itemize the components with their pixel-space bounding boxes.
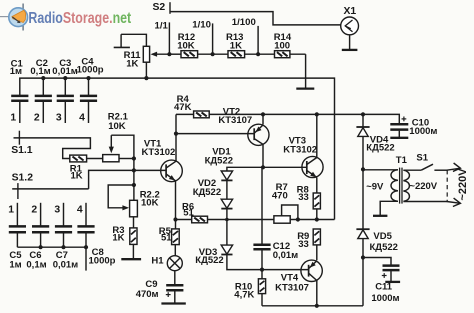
wire secondary bottom to output [403,201,447,203]
svg-text:KT3102: KT3102 [142,147,176,158]
svg-text:1000р: 1000р [89,255,116,266]
lamp H1 [167,256,182,271]
switch S2 label [153,2,166,13]
resistor R5 [172,229,180,245]
svg-text:1: 1 [10,113,16,124]
junction dot VT4 base node [260,268,264,272]
junction dot VD1 node [261,165,265,169]
capacitor C1 [11,96,28,123]
open contact at R11 top [114,34,130,47]
svg-text:KT3102: KT3102 [283,144,317,155]
winding value ~9V [366,181,384,192]
svg-text:1/100: 1/100 [232,17,256,28]
junction dots on bus [41,76,148,80]
wire S2 bus to X1 [170,12,341,25]
wire VT3 collector [316,114,318,157]
junction dot VT2 base branch [174,132,178,136]
wire VD2 to VD3 [226,209,228,246]
capacitor C2 label [30,58,50,77]
resistor R7 label [272,182,288,202]
diode VD3 [221,245,232,254]
transistor VT2 label [218,107,252,127]
potentiometer R11 [143,46,149,62]
capacitor C10 [390,124,408,137]
wire R9 bottom [316,245,318,261]
wire S1.1 common to R1 [14,138,91,159]
resistor R4 [194,111,210,118]
svg-text:2: 2 [31,204,37,215]
wire R3 to ground [132,244,134,258]
junction dot R6 node [225,218,229,222]
wire 1/10 tap [212,23,214,54]
svg-text:RadioStorage.net: RadioStorage.net [28,10,131,27]
switch S1.1 lever [18,131,20,145]
svg-text:4,7K: 4,7K [234,289,254,300]
wire to VD5 [362,169,364,229]
svg-text:S2: S2 [153,2,166,13]
svg-text:КД522: КД522 [195,255,223,266]
svg-text:10K: 10K [141,198,159,209]
switch S1.2 lever [17,183,19,199]
wire R8 bottom [316,209,318,220]
svg-text:C11: C11 [375,282,393,293]
capacitor C12 label [273,241,299,261]
resistor R11 label [124,50,142,70]
capacitor C6 [32,203,49,247]
transistor VT4 label [275,273,309,294]
resistor R1 [70,155,87,162]
diode VD1 label [205,147,233,167]
node 1/100 label [232,17,256,28]
wire rail to VD4 [362,114,364,127]
junction dots R7 row [296,217,319,221]
junction dots on divider line [167,52,260,56]
switch S1.2 label [12,173,34,184]
junction dots positive rail [261,112,365,116]
wire VD1 node [227,167,307,171]
capacitor C2 [35,78,52,123]
svg-text:0,1м: 0,1м [26,259,46,270]
diode VD5 [356,229,369,238]
svg-text:0,1м: 0,1м [30,66,50,77]
ground at X1 [342,49,358,51]
svg-text:4: 4 [77,204,83,215]
transistor VT4 [301,260,322,281]
svg-text:47K: 47K [174,102,192,113]
capacitor C6 label [26,250,46,271]
S1.1 contact pin 1 [10,113,16,124]
wire VD1 node to C12 [261,167,263,244]
resistor R6 [192,216,208,223]
resistor R6 label [182,201,194,218]
svg-text:S1.2: S1.2 [12,173,34,184]
svg-text:0,01м: 0,01м [273,250,299,261]
wire positive rail [209,114,399,123]
wire C5-C8 bus [17,246,86,248]
capacitor C11 [383,266,400,282]
transistor VT2 [248,124,269,145]
capacitor C9 label [136,279,159,300]
resistor R10 label [234,281,254,300]
svg-text:S1: S1 [416,152,428,163]
svg-text:1000м: 1000м [409,126,437,137]
capacitor C11 polarity [382,273,387,278]
switch S1 label [416,152,428,163]
S1.1 contact pin 2 [34,113,40,124]
svg-text:H1: H1 [151,255,164,266]
wire X1 to ground [349,35,351,50]
svg-text:S1.1: S1.1 [11,145,33,156]
node 1/10 label [192,19,211,30]
svg-text:КД522: КД522 [205,156,233,167]
svg-text:KT3107: KT3107 [218,115,252,126]
transformer T1 label [396,155,408,166]
resistor R8 [313,193,320,209]
capacitor C9 polarity [166,292,171,297]
wire node column [133,158,135,200]
wire to R10 [261,270,263,279]
capacitor C4 [80,78,97,123]
wire emitter to R6 [176,219,192,221]
resistor R7 tap [282,205,298,220]
svg-text:470: 470 [272,190,288,201]
svg-text:~220V: ~220V [457,168,469,201]
R2.1 wiper arrow [109,135,114,153]
junction dot T1 primary [361,167,365,171]
capacitor C5 label [9,250,22,271]
wire frequency bus and feedback [20,78,335,219]
potentiometer R2.1 label [108,112,129,132]
S1.2 contact pin 2 [31,204,37,215]
S1.1 contact pin 4 [79,113,85,124]
resistor R4 label [174,94,192,113]
wire R2.2 wiper loop [108,185,134,210]
svg-text:470м: 470м [136,289,159,300]
wire negative rail [262,305,363,307]
junction dot VT1 emitter node [173,217,177,221]
svg-text:1K: 1K [71,171,83,182]
RadioStorage.net logo icon [0,4,28,31]
svg-text:1м: 1м [10,66,22,77]
capacitor C5 [9,203,26,247]
wire R11 top [121,34,146,46]
wire S1 to output [434,169,447,171]
svg-text:1K: 1K [112,233,124,244]
node 1/1 label [155,20,169,31]
wire 1/100 tap [257,26,259,54]
resistor R14 label [274,32,292,51]
connector X1 [341,17,359,35]
connector X1 label [344,6,357,17]
resistor R9 [313,229,320,245]
svg-text:X1: X1 [344,6,357,17]
diode VD2 [221,199,232,208]
resistor R12 [181,51,198,58]
resistor R12 label [177,32,195,51]
wire to R5 [175,220,177,229]
winding value ~220V [409,181,437,192]
logo text RadioStorage.net [28,10,131,27]
capacitor C4 label [77,57,104,76]
svg-text:1000м: 1000м [371,293,399,304]
ground at T1 [373,215,387,217]
wire R5 to H1 [174,245,176,256]
wire VD4 to T1 [362,137,364,170]
wire S1.2 common [12,188,88,190]
capacitor C3 label [52,58,78,77]
wire T1 primary bottom [380,201,398,215]
wire VD1 to VD2 [226,180,228,199]
svg-text:КД522: КД522 [193,187,221,198]
wire R1 to R2.1 [87,158,103,160]
transistor VT1 label [142,138,176,158]
diode VD4 label [366,135,394,154]
diode VD2 label [193,178,221,198]
output arrow top [447,163,461,171]
capacitor C3 [57,78,74,123]
diode VD4 [356,127,369,136]
svg-text:3: 3 [54,204,60,215]
wire 1/1 tap [168,22,170,54]
S1.2 contact pin 3 [54,204,60,215]
ground at C11 [385,281,400,283]
ground at C10 [390,137,408,139]
svg-text:1K: 1K [230,41,242,52]
svg-text:51: 51 [161,232,172,243]
wire VT2 base [176,133,254,135]
S1.2 contact pin 4 [77,204,83,215]
svg-text:10K: 10K [177,41,195,52]
S1.2 contact pin 1 [8,204,14,215]
resistor R10 [258,279,265,294]
svg-text:0,01м: 0,01м [52,66,78,77]
svg-text:0,01м: 0,01м [53,259,79,270]
capacitor C10 label [409,118,437,137]
resistor R3 label [112,225,124,244]
resistor R13 label [226,32,243,51]
svg-text:1: 1 [8,204,14,215]
resistor R5 label [159,226,172,243]
wire secondary to S1 [403,169,421,171]
svg-text:1м: 1м [9,259,21,270]
wire R2.1 to node [119,158,134,160]
wire R10 to rail [261,294,263,306]
wire R11 bottom [145,62,147,78]
wire VT2 collector [262,144,264,167]
switch S2 lever contact [169,2,171,14]
wire R2.2 to R3 [133,217,135,228]
wire VD5 to rail [362,239,364,306]
ground at R14 [296,87,314,89]
wire VT4 base [262,269,309,271]
svg-text:51: 51 [183,208,194,219]
R11 wiper arrow [151,52,170,57]
svg-text:33: 33 [298,192,309,203]
transistor VT1 [161,160,183,182]
transistor VT3 [302,156,323,177]
wire VT4 collector [316,281,318,306]
svg-text:1K: 1K [126,59,138,70]
wire VT1 base net [89,170,166,189]
svg-text:1000р: 1000р [77,64,104,75]
lamp H1 label [151,255,164,266]
wire VT1 emitter [175,181,177,219]
transformer T1 primary winding [391,170,398,202]
wire R6 to R7 to R8 row [208,219,335,221]
wire R14 to ground [305,54,307,88]
svg-text:KT3107: KT3107 [275,283,309,294]
capacitor C10 polarity [402,117,407,122]
junction dots node column [132,156,136,187]
svg-text:3: 3 [56,113,62,124]
wire VT2 emitter [262,114,264,124]
ground at R3 [121,258,141,260]
svg-text:1/1: 1/1 [155,20,169,31]
output terminals dashed link [446,170,448,201]
wire VD3 down [227,255,262,270]
svg-text:КД522: КД522 [366,143,394,154]
transformer T1 core [400,168,402,204]
resistor R9 label [297,231,309,250]
resistor R13 [228,51,245,58]
potentiometer R2.1 [103,155,119,162]
diode VD3 label [195,247,223,266]
capacitor C7 [55,203,72,247]
switch S1.1 label [11,145,33,156]
wire R4 left [176,113,194,115]
capacitor C8 [77,203,94,247]
output arrow bottom [447,198,461,206]
capacitor C1 label [10,58,24,77]
svg-text:1/10: 1/10 [192,19,211,30]
wire H1 to C9 [174,271,176,285]
svg-text:T1: T1 [396,155,408,166]
resistor R1 label [70,164,83,182]
svg-text:2: 2 [34,113,40,124]
capacitor C8 label [89,247,116,266]
junction dot C11 node [361,255,365,259]
capacitor C11 label [371,282,399,304]
wire divider row [169,53,305,55]
wire T1 primary top [363,169,398,171]
svg-text:4: 4 [79,113,85,124]
potentiometer R2.2 label [140,189,160,208]
wire R2.1 wiper loop [111,135,134,158]
wire VT3 emitter [316,177,318,193]
switch S1 lever [421,164,433,170]
transistor VT3 label [283,136,317,156]
svg-text:100: 100 [274,41,290,52]
output voltage label ~220V [457,168,469,201]
capacitor C12 [253,245,270,270]
resistor R8 label [297,185,309,203]
capacitor C9 [166,285,183,303]
resistor R7 [274,216,290,223]
svg-text:~220V: ~220V [409,181,437,192]
resistor R14 [275,51,290,58]
capacitor C7 label [53,250,79,271]
diode VD1 [221,171,232,180]
svg-text:КД522: КД522 [370,242,398,253]
resistor R3 [130,228,137,245]
svg-text:~9V: ~9V [366,181,384,192]
S1.1 contact pin 3 [56,113,62,124]
diode VD5 label [370,231,398,253]
junction dots C bus [39,245,89,249]
svg-text:10K: 10K [108,121,126,132]
ground at C9 [161,302,185,304]
junction dot VT4 on rail [315,304,319,308]
wire to C11 [363,258,391,266]
transformer T1 secondary winding [403,170,409,201]
wire VT1 collector [175,114,177,161]
potentiometer R2.2 [130,200,138,217]
svg-text:VD5: VD5 [373,231,392,242]
wire C8 stub [85,247,87,270]
svg-text:33: 33 [298,239,309,250]
